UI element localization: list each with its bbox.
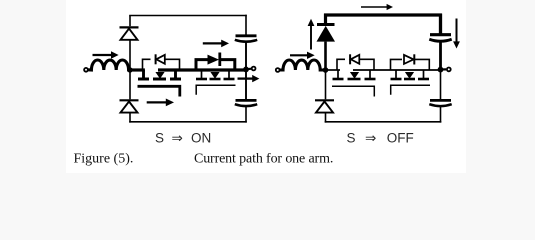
wire: left rail lower segment (right circuit) bbox=[325, 113, 327, 123]
MOSFET Q3 (off, thin) bbox=[332, 70, 376, 97]
arrow under Q1 (loop current) bbox=[147, 99, 174, 107]
wire: left rail top segment bold (right circuit) bbox=[324, 14, 327, 24]
wire: right rail lower (right circuit) bbox=[440, 106, 442, 122]
wire: top wire bold (right circuit) bbox=[324, 13, 442, 16]
svg-text:S: S bbox=[155, 131, 164, 146]
node: junction inductor/left rail bbox=[127, 67, 132, 72]
wire: left rail upper segment bbox=[129, 16, 131, 27]
arrow over Q2 diode bbox=[203, 40, 229, 48]
svg-text:S: S bbox=[347, 130, 356, 145]
body diode of Q2 (conducting, bold filled) bbox=[196, 53, 235, 71]
output terminal (left circuit) bbox=[246, 68, 251, 71]
output arrow (left circuit) bbox=[238, 75, 260, 82]
node: output junction (right circuit) bbox=[438, 67, 444, 73]
svg-text:Figure (5).: Figure (5). bbox=[74, 151, 134, 166]
wire: top wire left circuit bbox=[129, 15, 247, 17]
svg-text:ON: ON bbox=[191, 131, 211, 146]
input terminal (right circuit) bbox=[276, 68, 280, 72]
MOSFET Q1 (on, bold) bbox=[138, 70, 182, 97]
capacitor C4 (bottom right of right circuit) bbox=[429, 100, 451, 106]
diode D4 (bottom left of right circuit, off) bbox=[315, 100, 334, 112]
wire: right rail lower (left circuit) bbox=[245, 106, 247, 122]
wire: left rail mid segment bbox=[129, 40, 131, 100]
wire: right rail top bold (right circuit) bbox=[439, 14, 442, 34]
label S ON bbox=[155, 131, 211, 146]
body diode of Q1 bbox=[143, 54, 180, 70]
input terminal (left circuit) bbox=[84, 68, 88, 72]
wire: right rail mid thin (right circuit) bbox=[440, 70, 442, 100]
wire: bottom wire left circuit bbox=[129, 121, 247, 123]
up arrow (current into diode) bbox=[308, 19, 315, 50]
svg-text:⇒: ⇒ bbox=[365, 130, 377, 145]
wire: left rail mid segment thin (right circuit) bbox=[325, 70, 327, 99]
page background bbox=[66, 0, 466, 173]
node: junction inductor/left rail (right circuit) bbox=[323, 67, 329, 73]
wire: main middle wire thin (right circuit) bbox=[326, 69, 341, 71]
capacitor C2 (bottom right of left circuit) bbox=[235, 100, 257, 106]
svg-text:OFF: OFF bbox=[387, 130, 414, 145]
wire: right rail upper (left circuit) bbox=[245, 15, 247, 35]
capacitor C1 (top right of left circuit) bbox=[235, 36, 257, 42]
wire: left rail below diode (bold-ish) bbox=[324, 42, 327, 70]
body diode of Q3 bbox=[337, 54, 374, 70]
diode D1 (top left, off) bbox=[120, 27, 139, 39]
MOSFET Q4 (off, thin) bbox=[391, 70, 431, 95]
wire: bottom wire (right circuit) bbox=[325, 121, 442, 123]
MOSFET Q2 (off, thin) bbox=[196, 70, 236, 95]
wire: main middle wire (bold current path) bbox=[130, 68, 145, 71]
output terminal (right circuit) bbox=[441, 68, 447, 70]
wire: right rail below C3 bold bbox=[439, 41, 442, 69]
svg-text:Current path for one arm.: Current path for one arm. bbox=[194, 151, 333, 166]
diode D3 (top, conducting, filled) bbox=[317, 25, 336, 42]
down arrow (current into cap) bbox=[453, 19, 460, 49]
arrow over L1 bbox=[93, 51, 119, 58]
svg-text:⇒: ⇒ bbox=[172, 131, 184, 146]
wire: left rail lower segment bbox=[129, 113, 131, 123]
arrow over top wire bbox=[361, 4, 393, 10]
label S OFF bbox=[347, 130, 414, 145]
inductor L1 bbox=[88, 60, 130, 70]
node: output junction (left circuit) bbox=[243, 67, 249, 73]
diode D2 (bottom left, off) bbox=[120, 100, 139, 112]
wire: right rail mid (left circuit) bbox=[245, 42, 247, 100]
body diode of Q4 bbox=[391, 54, 430, 70]
inductor L2 bbox=[280, 60, 326, 70]
capacitor C3 (top, in current path, bold) bbox=[429, 35, 451, 42]
arrow over L2 bbox=[290, 52, 315, 59]
